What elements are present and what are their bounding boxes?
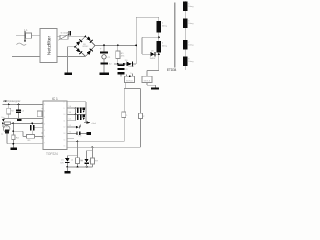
mains plug X1 [16,28,40,42]
ferrite bead on wire [17,119,22,121]
IC left pin ticks [42,105,43,144]
svg-text:12: 12 [64,127,66,129]
diode D2 [83,107,85,112]
wire drain to N2 [147,70,159,72]
secondary winding W3 [183,2,193,12]
diode D1 [125,60,136,68]
svg-text:15: 15 [64,146,66,148]
transformer core [174,3,176,68]
svg-text:1N4937: 1N4937 [150,58,157,60]
network box N1 [125,73,135,82]
wire drain vertical [135,17,137,64]
node minus / wire to ground [68,46,75,48]
junction node [117,63,119,65]
svg-text:R2: R2 [11,111,13,113]
svg-text:1: 1 [44,104,45,106]
diode D6 clamp [150,50,159,60]
svg-text:14: 14 [64,139,66,141]
diode D3 [83,115,85,120]
svg-text:9: 9 [64,108,65,110]
junction node [18,104,20,106]
svg-text:5 4: 5 4 [69,106,71,108]
junction node [67,166,69,168]
junction node [8,104,10,106]
net flag down arrow [2,117,6,122]
svg-text:1.1: 1.1 [24,28,28,32]
wire control row [3,122,43,124]
svg-text:4: 4 [44,123,45,125]
junction node [135,44,137,46]
svg-text:Si 1 0,5A: Si 1 0,5A [61,32,69,35]
svg-text:SIOV-S: SIOV-S [126,81,133,83]
net flag F2 [139,113,146,118]
transformer secondary wire [184,1,186,70]
svg-text:11: 11 [64,120,66,122]
svg-text:+Uref: +Uref [91,123,96,125]
svg-text:60mg: 60mg [162,25,167,27]
junction node [158,53,160,55]
wire mains bottom [12,56,40,58]
resistor R6 [75,158,83,167]
svg-text:10mg: 10mg [188,45,193,47]
svg-text:ETD34: ETD34 [167,68,177,72]
zener diode ZD2 [81,159,91,167]
transistor Q1 [1,123,10,143]
resistor R7 [91,158,99,167]
svg-text:10: 10 [64,114,66,116]
svg-text:C4: C4 [21,111,23,113]
svg-text:IC 1: IC 1 [52,97,58,101]
transformer TR1 primary winding W1 [157,17,167,32]
resistor R3 [5,122,11,128]
resistor R1 [116,45,126,64]
capacitor C2 (clamp, stacked plates) [118,65,128,77]
net flag F1 [122,112,129,117]
svg-text:5V6: 5V6 [60,162,63,164]
fuse Si1 [59,31,72,40]
label Optokoppler with arrow [2,99,20,103]
net B vertical [140,89,142,148]
ground [64,73,72,75]
svg-text:1N4007: 1N4007 [128,66,135,68]
wire cap to IC [34,127,43,129]
network box N2 [142,71,156,88]
junction node [117,44,119,46]
wire winding W2 down to N2 [158,52,160,70]
wire top to transformer [136,16,159,18]
wire filter bottom to bridge [57,56,86,58]
svg-text:10mg: 10mg [188,23,193,25]
svg-text:10mg: 10mg [188,61,193,63]
svg-text:13: 13 [64,133,66,135]
wire branch [13,130,23,132]
junction node [103,44,105,46]
wire zener group bottoms [67,166,92,168]
svg-text:7 1: 7 1 [69,132,71,134]
svg-text:(2: (2 [71,159,73,161]
capacitor C4 [16,105,24,119]
junction node [2,123,4,125]
wire bias row1 [68,107,86,109]
wire filter to fuse/bridge [57,35,85,37]
net A vertical [123,89,125,142]
diode D4 [68,125,81,129]
secondary winding W5 [183,40,193,50]
wire between windings [158,32,160,41]
svg-text:8: 8 [64,102,65,104]
svg-text:SIOV-S: SIOV-S [144,81,151,83]
svg-text:5: 5 [44,130,45,132]
wire clamp return [142,36,159,38]
junction node [13,123,15,125]
wire to IC pin1 [3,104,43,106]
net flag right arrow [84,121,96,125]
resistor R5 [23,135,43,142]
wire to IC pin7 [7,143,43,145]
Netzfilter box [40,29,57,63]
svg-text:60mg: 60mg [162,45,167,47]
wire pin to feedback net B [68,146,141,148]
svg-text:10mg: 10mg [188,6,193,8]
wire down to zener group 2 [92,147,94,158]
wire pin to feedback net A [68,140,124,142]
wire clamp node [114,63,126,65]
bias wire pin8 [68,101,86,103]
svg-text:Z2: Z2 [81,160,83,162]
svg-text:3 4: 3 4 [69,112,71,114]
junction node [123,63,125,65]
capacitor C5 [30,123,34,135]
transformer TR1 primary winding W2 [157,41,167,53]
secondary winding W6 [183,56,193,66]
svg-text:Netzfilter: Netzfilter [47,35,53,55]
pin name marks inside IC [44,102,65,148]
wire bias link [75,108,77,114]
zener diode ZD1 [60,158,73,171]
svg-text:5 1: 5 1 [69,125,71,127]
secondary winding W4 [183,19,193,29]
ground [11,148,17,150]
ground [151,87,159,89]
ground [100,73,109,75]
junction node [158,36,160,38]
svg-text:Z1: Z1 [61,159,63,161]
svg-text:3: 3 [44,117,45,119]
svg-text:C2: C2 [125,69,127,71]
wire bias row3 [68,120,76,122]
ground [65,171,71,173]
+ rail wire [95,44,136,46]
svg-text:7: 7 [44,143,45,145]
resistor R2 [7,105,14,119]
IC right pin ticks [67,102,69,147]
bridge rectifier B1 [74,36,95,57]
svg-text:+: + [100,46,102,50]
svg-text:2: 2 [44,111,45,113]
svg-text:C 1: C 1 [69,119,72,121]
wire bias row2 [68,113,86,115]
svg-text:Optokoppler: Optokoppler [7,99,21,103]
pin stub [68,138,74,140]
capacitor C6 [77,107,81,112]
AC tilde symbol [17,43,27,45]
svg-text:D 8: D 8 [79,135,82,137]
capacitor C7 [77,115,81,120]
capacitor C8 [68,131,91,135]
wire to IC pin3 [3,117,43,119]
svg-text:TOP224: TOP224 [46,152,58,156]
component box at IC edge [37,111,42,117]
svg-text:B250C: B250C [83,46,89,48]
IC U1 TOP224 [43,97,67,156]
resistor R4 [12,123,20,147]
wire N1 bottom [125,83,127,89]
capacitor C1 (electrolytic to ground) [100,45,112,72]
wire down to zener group 1 [77,141,79,158]
svg-text:6: 6 [44,136,45,138]
